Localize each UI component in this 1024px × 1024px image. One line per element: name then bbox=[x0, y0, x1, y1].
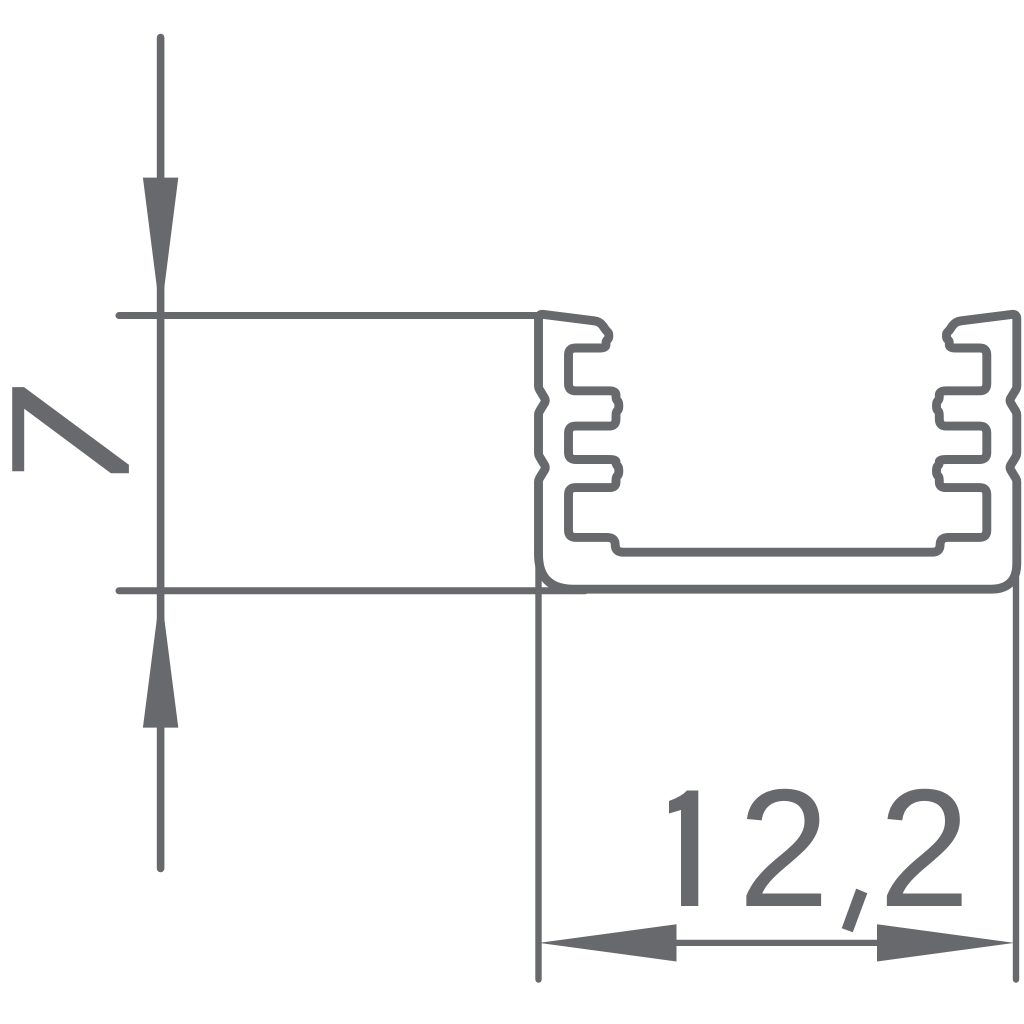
right extension line 12.2 bbox=[1013, 545, 1019, 980]
top extension line bbox=[119, 312, 545, 319]
svg-text:2: 2 bbox=[879, 755, 970, 942]
text 12,2 : digit 1 (custom, no foot) bbox=[669, 791, 698, 907]
arrow right bbox=[877, 924, 1014, 961]
arrow left bbox=[539, 924, 677, 961]
arrow up bbox=[143, 590, 178, 728]
bottom extension line bbox=[119, 587, 585, 594]
vertical dimension line bbox=[157, 38, 165, 869]
svg-text:2: 2 bbox=[738, 755, 829, 942]
comma (custom slanted) bbox=[842, 889, 868, 933]
arrow down bbox=[143, 178, 178, 317]
left extension line 12.2 bbox=[535, 545, 541, 980]
horizontal dimension line bbox=[660, 940, 890, 946]
text 7 (rotated, custom) bbox=[12, 387, 129, 473]
profile outline bbox=[539, 314, 1017, 589]
